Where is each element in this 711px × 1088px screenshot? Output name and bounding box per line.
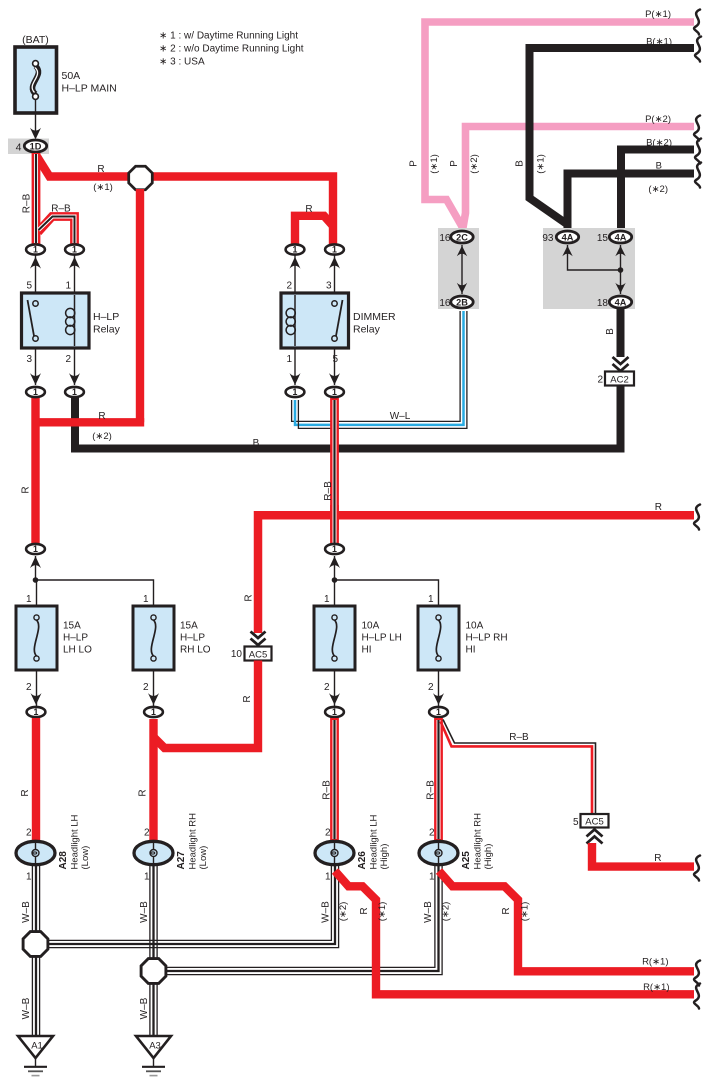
svg-text:W–B: W–B [139, 997, 150, 1019]
node circle below H-LP pin 2 [74, 348, 76, 385]
svg-text:(∗1): (∗1) [536, 154, 547, 174]
label P (*1) vertical [409, 160, 420, 167]
wire R long horizontal to AC5 [258, 515, 694, 633]
wire R from AC5 (5) to right [592, 843, 694, 867]
svg-text:R: R [359, 907, 370, 914]
octagon ground junction O2 [141, 959, 166, 984]
svg-text:16: 16 [439, 298, 451, 309]
svg-text:4: 4 [16, 142, 22, 154]
svg-text:Headlight LH: Headlight LH [369, 814, 380, 869]
svg-text:(∗1): (∗1) [377, 902, 388, 922]
pin 16 2B [451, 296, 473, 308]
junction dot col3 + feed lines to fuses [332, 577, 338, 583]
label B vertical [605, 328, 616, 335]
svg-text:(Low): (Low) [80, 846, 91, 870]
svg-text:W–B: W–B [139, 901, 150, 923]
svg-text:R–B: R–B [322, 780, 333, 800]
relay H-LP U1 [22, 293, 90, 348]
svg-text:Headlight RH: Headlight RH [473, 813, 484, 870]
svg-text:(∗2): (∗2) [469, 154, 480, 174]
svg-text:R: R [97, 164, 104, 175]
svg-text:∗ 1 : w/ Daytime Running Light: ∗ 1 : w/ Daytime Running Light [159, 31, 298, 42]
label R (*1) col3 [359, 907, 370, 914]
W-B wire col2 bulb to octagon O2 [150, 866, 157, 959]
svg-text:∗ 2 : w/o Daytime Running Ligh: ∗ 2 : w/o Daytime Running Light [159, 44, 304, 55]
svg-text:W–L: W–L [390, 411, 411, 422]
svg-text:1: 1 [429, 872, 435, 883]
svg-text:2: 2 [324, 682, 330, 693]
label W-B above ground A3 [139, 997, 150, 1019]
chevrons into AC2 [613, 357, 629, 371]
svg-text:R: R [654, 853, 661, 864]
svg-text:2: 2 [26, 828, 32, 839]
svg-text:AC5: AC5 [249, 649, 267, 660]
label R-B col4 [426, 780, 437, 800]
svg-text:A27: A27 [176, 851, 187, 870]
label R col1 [20, 789, 31, 796]
svg-text:W–B: W–B [21, 997, 32, 1019]
svg-text:(∗2): (∗2) [338, 902, 349, 922]
pin 18 4A [609, 296, 631, 308]
svg-text:1: 1 [325, 872, 331, 883]
pin 16 2C [451, 231, 473, 243]
svg-text:R: R [244, 594, 255, 601]
svg-text:P: P [409, 160, 420, 167]
junction dot col1 + feed lines to fuses [33, 577, 39, 583]
wire W-L from dimmer pin 1 to 2B (white-blue tube) [292, 311, 461, 421]
svg-text:R: R [21, 486, 32, 493]
svg-text:2: 2 [144, 828, 150, 839]
wire B from 18 4A down [617, 309, 625, 357]
svg-text:H–LP: H–LP [93, 311, 119, 323]
svg-text:LH LO: LH LO [63, 645, 92, 656]
chevrons into AC5 [251, 632, 266, 646]
svg-text:R: R [242, 695, 253, 702]
wire R (*1) from A25 down right [439, 871, 694, 971]
svg-text:R: R [20, 789, 31, 796]
svg-text:50A: 50A [62, 70, 81, 82]
links inside 4A block [568, 245, 621, 294]
svg-text:A25: A25 [461, 851, 472, 870]
node circle below H-LP pin 3 [35, 348, 37, 385]
svg-text:(∗2): (∗2) [441, 902, 452, 922]
wire B(*2) black [621, 150, 694, 232]
label R above AC5 [244, 594, 255, 601]
svg-text:1: 1 [65, 281, 71, 292]
node circle above dimmer pin 3 [334, 255, 336, 293]
wire R-B from 1D down to H-LP relay pin 5 (red w/ black stripe) [32, 153, 41, 245]
svg-text:3: 3 [26, 354, 32, 365]
label R below AC5 [242, 695, 253, 702]
headlight A27 (RH Low) [134, 841, 173, 864]
svg-text:10A: 10A [362, 621, 380, 632]
chevrons up into AC5 [587, 830, 603, 844]
svg-text:H–LP RH: H–LP RH [466, 633, 508, 644]
wire R-B thin branch to AC5 (5) [443, 720, 596, 815]
wire P(*1) pink [425, 22, 694, 229]
node circle below dimmer pin 1 [294, 348, 296, 385]
R-B stripe over crossing (re-draw col3 stripe above red horizontal) [330, 505, 339, 530]
wire B from H-LP pin 2 to AC2 (thick black) [75, 384, 621, 449]
svg-text:(∗1): (∗1) [429, 154, 440, 174]
octagon ground junction O1 [23, 932, 48, 957]
svg-text:R(∗1): R(∗1) [642, 957, 668, 968]
wire R from octagon right to dimmer drop [152, 177, 333, 246]
svg-text:18: 18 [597, 298, 609, 309]
W-B run octagon O2 to col4 [166, 866, 442, 975]
svg-text:Headlight RH: Headlight RH [188, 813, 199, 870]
svg-text:H–LP MAIN: H–LP MAIN [62, 83, 117, 95]
wire R-B col4 to headlight A25 [434, 718, 443, 841]
pin 15 4A [609, 231, 631, 243]
label W-B col1 [21, 901, 32, 923]
svg-text:HI: HI [466, 645, 476, 656]
svg-text:AC5: AC5 [585, 816, 603, 827]
label R-B vertical [22, 193, 33, 213]
wire R-B from dimmer pin 5 down to junction C (red w/ black stripe) [330, 398, 339, 545]
svg-text:15A: 15A [180, 621, 198, 632]
svg-text:15A: 15A [63, 621, 81, 632]
svg-text:R(∗1): R(∗1) [643, 982, 669, 993]
svg-text:1: 1 [26, 872, 32, 883]
svg-text:B: B [656, 161, 662, 172]
svg-text:10A: 10A [466, 621, 484, 632]
svg-text:R: R [501, 907, 512, 914]
connector block 2C/2B gray [438, 228, 479, 309]
wire R from H-LP relay pin 3 down to junction C [31, 398, 39, 545]
svg-text:1: 1 [428, 594, 434, 605]
break symbols right edge top [694, 10, 700, 35]
svg-text:2: 2 [26, 682, 32, 693]
wire R col2 to headlight A27 [149, 719, 157, 841]
svg-text:10: 10 [231, 649, 243, 660]
ground A1 [18, 1036, 53, 1058]
node circle junction C col3 [334, 556, 336, 580]
svg-text:B: B [515, 160, 526, 167]
svg-text:B: B [253, 438, 260, 449]
svg-text:2: 2 [428, 682, 434, 693]
svg-text:2: 2 [429, 828, 435, 839]
W-B below O2 to ground A3 [150, 983, 157, 1036]
svg-text:R: R [138, 789, 149, 796]
wire R-B col3 to headlight A26 [330, 718, 339, 841]
ground A3 [136, 1036, 171, 1058]
svg-text:H–LP LH: H–LP LH [362, 633, 402, 644]
W-B below O1 to ground A1 [32, 956, 39, 1036]
svg-text:R–B: R–B [22, 193, 33, 213]
wire B to pin 93 [568, 174, 695, 232]
svg-text:DIMMER: DIMMER [353, 311, 396, 323]
octagon junction J1 [129, 166, 153, 190]
svg-text:5: 5 [332, 354, 338, 365]
svg-text:(∗1): (∗1) [93, 182, 113, 193]
wire R-B branch to H-LP relay pin 1 [38, 217, 75, 246]
svg-text:1D: 1D [30, 141, 42, 151]
svg-text:H–LP: H–LP [63, 633, 88, 644]
svg-text:∗ 3 : USA: ∗ 3 : USA [159, 57, 205, 68]
R-B stripe on main drop [34, 154, 38, 243]
pin 93 4A [556, 231, 578, 243]
svg-text:(∗1): (∗1) [520, 902, 531, 922]
svg-text:2: 2 [286, 281, 292, 292]
svg-text:(∗2): (∗2) [92, 431, 112, 442]
svg-text:4A: 4A [615, 297, 627, 307]
label W-B above ground A1 [21, 997, 32, 1019]
svg-text:1: 1 [144, 872, 150, 883]
svg-text:RH LO: RH LO [180, 645, 211, 656]
svg-text:1: 1 [143, 594, 149, 605]
wire R (*1) from A26 down right [335, 871, 694, 994]
svg-text:1: 1 [286, 354, 292, 365]
connector block 4A gray [543, 228, 635, 309]
svg-text:2B: 2B [456, 297, 468, 307]
svg-text:AC2: AC2 [610, 374, 628, 385]
svg-text:R–B: R–B [51, 204, 71, 215]
fusible link 50A H-LP MAIN [15, 47, 57, 113]
svg-text:A26: A26 [357, 851, 368, 870]
svg-text:R: R [98, 411, 105, 422]
link 2C to 2B [461, 245, 463, 294]
svg-text:2: 2 [597, 375, 603, 386]
node circle above H-LP pin 5 [35, 255, 37, 293]
svg-text:B(∗1): B(∗1) [646, 37, 672, 48]
svg-text:5: 5 [573, 817, 579, 828]
svg-text:B(∗2): B(∗2) [646, 138, 672, 149]
svg-text:Relay: Relay [93, 324, 121, 336]
svg-text:(High): (High) [483, 844, 494, 870]
svg-text:Relay: Relay [353, 324, 381, 336]
svg-text:3: 3 [326, 281, 332, 292]
svg-text:2: 2 [325, 828, 331, 839]
breaks bottom right [694, 961, 700, 986]
wire R branch to octagon junction [37, 157, 129, 177]
svg-text:(∗2): (∗2) [648, 184, 668, 195]
svg-text:W–B: W–B [21, 901, 32, 923]
node circle above H-LP pin 1 [74, 255, 76, 293]
headlight A26 (LH High) [315, 841, 354, 864]
label B (*1) vertical [515, 160, 526, 167]
svg-text:A1: A1 [31, 1041, 43, 1052]
svg-text:R–B: R–B [509, 732, 529, 743]
node circle junction C col1 [35, 556, 37, 580]
svg-text:1: 1 [324, 594, 330, 605]
label W-B col2 [139, 901, 150, 923]
relay DIMMER U2 [281, 293, 349, 348]
wire R col1 to headlight A28 [32, 718, 40, 841]
svg-text:Headlight LH: Headlight LH [70, 814, 81, 869]
label R-B vertical mid [323, 481, 334, 501]
wire B(*1) black [530, 48, 695, 231]
svg-text:2: 2 [143, 682, 149, 693]
svg-text:W–B: W–B [321, 901, 332, 923]
break R [694, 856, 700, 881]
svg-text:(BAT): (BAT) [22, 34, 49, 46]
node circle above dimmer pin 2 [294, 255, 296, 293]
headlight A25 (RH High) [419, 841, 458, 864]
svg-text:HI: HI [362, 645, 372, 656]
wire P(*2) pink [463, 127, 694, 230]
node circles row D [37, 670, 439, 706]
label P (*2) vertical [449, 160, 460, 167]
svg-text:R: R [655, 502, 662, 513]
svg-text:4A: 4A [562, 232, 574, 242]
headlight A28 (LH Low) [16, 841, 55, 864]
svg-text:R–B: R–B [426, 780, 437, 800]
break R [694, 505, 700, 530]
wire R hook to dimmer pin 2 [295, 216, 333, 245]
svg-text:P: P [449, 160, 460, 167]
svg-text:2C: 2C [456, 232, 468, 242]
W-B wire col1 bulb to octagon O1 [32, 866, 39, 932]
svg-text:H–LP: H–LP [180, 633, 205, 644]
label R-B col3 [322, 780, 333, 800]
svg-text:(High): (High) [379, 844, 390, 870]
label R col2 [138, 789, 149, 796]
label W-B (*2) col3 [321, 901, 332, 923]
svg-text:P(∗2): P(∗2) [645, 114, 671, 125]
svg-text:2: 2 [65, 354, 71, 365]
svg-text:R–B: R–B [323, 481, 334, 501]
svg-text:4A: 4A [615, 232, 627, 242]
wire fuse to 1D [35, 99, 37, 132]
svg-text:5: 5 [26, 281, 32, 292]
W-B run octagon O1 to col3 [48, 866, 339, 948]
connector 4 1D [8, 139, 49, 155]
svg-text:16: 16 [439, 233, 451, 244]
node circle below dimmer pin 5 [334, 348, 336, 385]
svg-text:15: 15 [597, 233, 609, 244]
svg-text:R: R [305, 204, 312, 215]
svg-text:93: 93 [542, 233, 554, 244]
label W-B (*2) col4 [423, 901, 434, 923]
svg-text:P(∗1): P(∗1) [645, 9, 671, 20]
label R vertical col1 [21, 486, 32, 493]
label R (*1) col4 [501, 907, 512, 914]
svg-text:W–B: W–B [423, 901, 434, 923]
svg-text:A3: A3 [149, 1041, 161, 1052]
svg-text:B: B [605, 328, 616, 335]
svg-text:(Low): (Low) [198, 846, 209, 870]
wire R from AC5 down joining col2 [154, 661, 259, 749]
svg-text:A28: A28 [58, 851, 69, 870]
svg-text:1: 1 [26, 594, 32, 605]
wire R from octagon down and left (*2) [136, 189, 144, 422]
